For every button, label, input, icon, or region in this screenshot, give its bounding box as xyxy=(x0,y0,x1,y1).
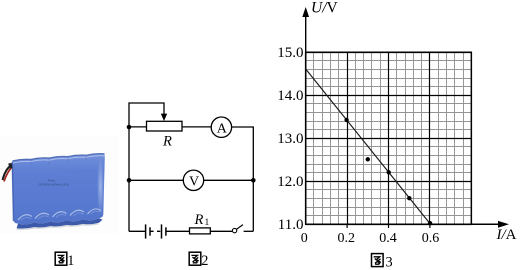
svg-text:R: R xyxy=(194,212,204,228)
svg-text:1: 1 xyxy=(67,253,74,269)
pack drop shadow xyxy=(16,222,99,230)
svg-text:0.6: 0.6 xyxy=(422,231,440,246)
svg-text:12.0: 12.0 xyxy=(277,174,303,190)
svg-text:0.2: 0.2 xyxy=(337,231,355,246)
svg-text:23S18650 4400mAh 18.5V: 23S18650 4400mAh 18.5V xyxy=(38,182,69,186)
wire: battery to R1 xyxy=(166,230,190,232)
wire: voltmeter row xyxy=(129,179,253,181)
top crest light line xyxy=(13,156,105,163)
switch xyxy=(232,228,236,232)
pack bottom rim xyxy=(17,218,103,228)
svg-text:1: 1 xyxy=(205,218,210,228)
wire: left vertical xyxy=(128,127,130,231)
top dark rim line xyxy=(13,154,105,161)
svg-text:15.0: 15.0 xyxy=(277,45,303,61)
x ticks xyxy=(347,224,430,228)
wire: wiper loop xyxy=(129,103,164,127)
major grid xyxy=(306,52,472,225)
rheostat R body xyxy=(147,121,183,131)
wire: right vertical lower xyxy=(252,180,254,231)
ammeter A circle xyxy=(211,117,231,137)
pack top band highlight xyxy=(12,154,104,176)
svg-text:2: 2 xyxy=(201,253,208,269)
graph (figure 3) xyxy=(277,0,516,246)
svg-text:I/A: I/A xyxy=(496,227,517,243)
svg-text:13.0: 13.0 xyxy=(277,131,303,147)
circuit (figure 2) xyxy=(129,103,253,239)
svg-text:A: A xyxy=(217,121,228,136)
svg-text:Podoy: Podoy xyxy=(48,179,56,183)
battery pack photo (figure 1) xyxy=(0,136,118,234)
data line xyxy=(306,69,431,224)
caption 图3 xyxy=(372,254,384,267)
pack body xyxy=(12,154,105,225)
svg-text:V: V xyxy=(189,174,199,189)
axis X xyxy=(306,223,500,225)
right edge sheen xyxy=(97,157,104,215)
caption 图2 xyxy=(189,252,201,265)
photo background xyxy=(0,136,118,234)
voltmeter V circle xyxy=(183,170,203,190)
caption 图1 xyxy=(55,252,67,265)
cell joints shading xyxy=(31,155,86,166)
svg-text:0: 0 xyxy=(301,231,308,246)
svg-text:14.0: 14.0 xyxy=(277,88,303,104)
axis Y xyxy=(306,52,472,224)
cell bottom highlight arcs xyxy=(18,209,101,220)
svg-text:U/V: U/V xyxy=(311,0,339,16)
junction nodes xyxy=(127,125,132,130)
minor grid xyxy=(306,52,472,225)
wire: R1 to switch xyxy=(210,230,232,232)
rheostat wiper arrowhead xyxy=(161,114,167,121)
wire: left node to rheostat xyxy=(129,126,147,128)
y labels xyxy=(277,45,303,233)
svg-text:R: R xyxy=(162,134,172,150)
wire: rheostat to ammeter xyxy=(182,126,211,128)
data points xyxy=(344,118,348,122)
wire: switch to right corner xyxy=(244,230,254,232)
wire: ammeter to right rail xyxy=(232,127,254,180)
battery cells xyxy=(146,224,166,238)
svg-text:0.4: 0.4 xyxy=(379,231,397,246)
left edge dark xyxy=(12,162,13,221)
wire: bottom left xyxy=(129,230,145,232)
svg-text:11.0: 11.0 xyxy=(278,217,304,233)
x labels xyxy=(301,231,440,246)
battery wires xyxy=(3,166,12,181)
resistor R1 body xyxy=(190,228,211,234)
svg-text:3: 3 xyxy=(386,254,393,270)
